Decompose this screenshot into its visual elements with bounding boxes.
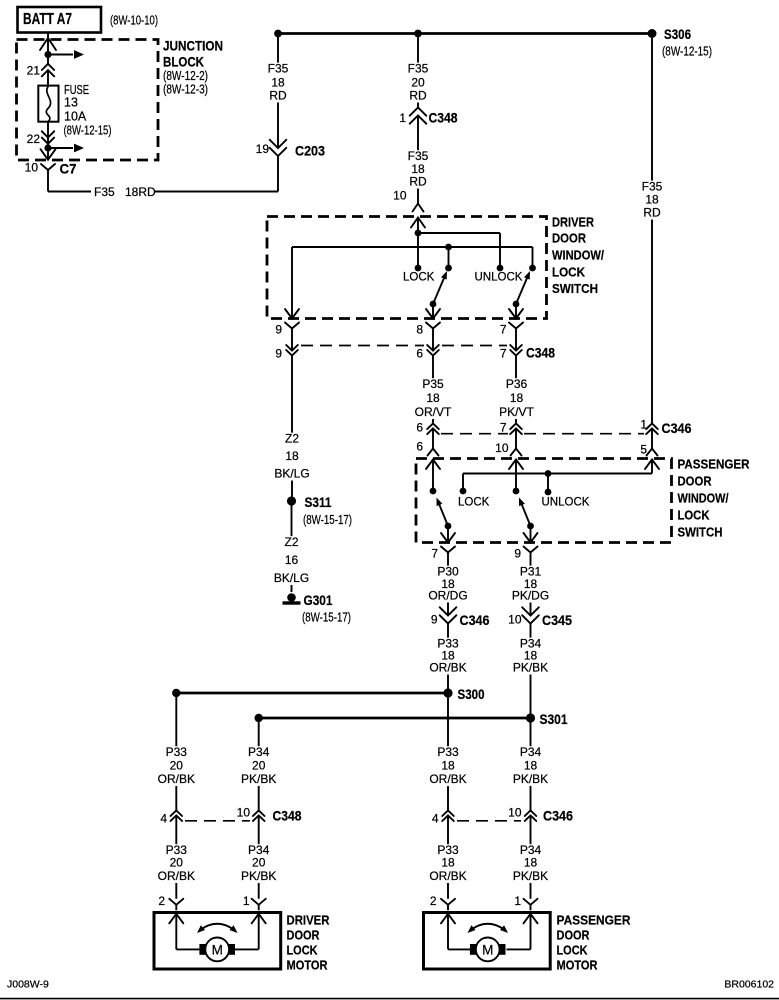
wire P34 20 PK/BK (driver leg from S301) <box>258 718 260 810</box>
node feed split (driver switch) <box>415 230 422 237</box>
svg-text:LOCK: LOCK <box>287 943 319 958</box>
lock contact (passenger) <box>460 488 467 495</box>
unlock stationary contact (driver) <box>497 265 504 272</box>
svg-text:Z2: Z2 <box>285 432 299 446</box>
svg-text:BLOCK: BLOCK <box>163 54 204 70</box>
svg-text:18: 18 <box>285 449 299 463</box>
unlock contact (passenger) <box>545 489 552 496</box>
splice S300 wire <box>176 692 448 695</box>
wire P33 18 OR/BK to S300 <box>447 624 449 694</box>
contact pin10 side (passenger) <box>513 488 520 495</box>
exit arrow pin 8 <box>426 309 440 319</box>
svg-text:22: 22 <box>27 132 41 146</box>
wire bus to C348 with label F35 20 RD <box>417 34 419 108</box>
wire BATT A7 to junction block <box>47 33 49 64</box>
svg-text:C348: C348 <box>526 345 555 361</box>
svg-text:BATT A7: BATT A7 <box>23 11 72 28</box>
svg-text:18: 18 <box>441 856 455 870</box>
svg-text:OR/VT: OR/VT <box>415 405 452 419</box>
switch blade pin 7 (driver) <box>513 301 520 308</box>
svg-text:2: 2 <box>430 894 437 908</box>
entry arrow driver motor pin 1 <box>252 914 266 924</box>
exit arrow pin 9 (passenger) <box>524 533 538 543</box>
svg-text:PASSENGER: PASSENGER <box>557 913 632 928</box>
svg-text:9: 9 <box>514 547 521 561</box>
wire pin21 to fuse <box>47 70 49 86</box>
footer line <box>0 998 779 1000</box>
svg-text:OR/DG: OR/DG <box>428 589 467 603</box>
svg-text:BR006102: BR006102 <box>724 979 774 991</box>
svg-text:18: 18 <box>510 391 524 405</box>
wire F35 18RD from C7 to C203 (down, right run) <box>47 176 49 192</box>
passenger switch pin 6 entry <box>432 430 434 449</box>
svg-text:21: 21 <box>27 64 41 78</box>
svg-text:1: 1 <box>243 894 250 908</box>
node BATT A7 feed box <box>18 7 102 33</box>
svg-text:F35: F35 <box>94 185 115 199</box>
splice S301 wire <box>259 717 531 720</box>
entry arrow pin 10 into driver switch <box>411 218 425 228</box>
svg-text:6: 6 <box>416 421 423 435</box>
svg-text:PK/BK: PK/BK <box>241 772 276 786</box>
entry arrow into junction block <box>40 38 56 50</box>
wire pin7 to C348 <box>515 334 517 351</box>
svg-text:UNLOCK: UNLOCK <box>475 272 523 284</box>
wire P34 18 PK/BK to S301 <box>530 624 532 719</box>
svg-text:P33: P33 <box>166 745 188 759</box>
svg-text:DOOR: DOOR <box>287 928 321 943</box>
entry arrow passenger motor pin 1 <box>524 914 538 924</box>
svg-text:MOTOR: MOTOR <box>557 958 599 973</box>
svg-text:PK/DG: PK/DG <box>512 589 549 603</box>
svg-text:Z2: Z2 <box>284 535 298 549</box>
svg-text:(8W-12-3): (8W-12-3) <box>163 83 208 97</box>
svg-text:S300: S300 <box>458 687 485 702</box>
wire to lock contact <box>417 233 419 268</box>
svg-text:18: 18 <box>271 76 285 90</box>
entry arrow passenger motor pin 2 <box>441 914 455 924</box>
lock stationary contact (driver) <box>415 265 422 272</box>
svg-text:PK/BK: PK/BK <box>513 661 548 675</box>
svg-text:PASSENGER: PASSENGER <box>678 457 751 472</box>
contact (driver unlock side) <box>529 265 536 272</box>
entry arrow pin 6 into passenger switch <box>426 460 440 470</box>
splice S300 <box>443 688 452 697</box>
svg-text:(8W-12-2): (8W-12-2) <box>163 69 208 83</box>
svg-text:S301: S301 <box>540 712 568 727</box>
svg-text:OR/BK: OR/BK <box>429 869 466 883</box>
svg-text:20: 20 <box>170 856 184 870</box>
svg-text:OR/BK: OR/BK <box>429 661 466 675</box>
svg-text:P35: P35 <box>422 377 444 391</box>
svg-text:7: 7 <box>500 347 507 361</box>
svg-text:10: 10 <box>393 189 407 203</box>
svg-text:RD: RD <box>269 89 287 103</box>
svg-text:(8W-10-10): (8W-10-10) <box>110 14 158 28</box>
svg-text:P33: P33 <box>437 745 459 759</box>
svg-text:BK/LG: BK/LG <box>274 467 309 481</box>
junction node with feed arrow (bottom) <box>47 138 49 160</box>
node on feed row (passenger) <box>545 470 552 477</box>
node at x278 on bus <box>274 30 282 38</box>
svg-text:C7: C7 <box>60 161 77 177</box>
svg-text:P36: P36 <box>506 377 528 391</box>
svg-text:20: 20 <box>252 759 266 773</box>
switch blade pin 8 (driver) <box>430 301 437 308</box>
switch blade pin 7 (passenger) <box>445 523 452 530</box>
svg-text:9: 9 <box>431 613 438 627</box>
contact below node (driver lock side) <box>445 265 452 272</box>
node on ground feed row <box>445 244 452 251</box>
svg-text:DRIVER: DRIVER <box>552 215 595 230</box>
passenger door lock motor box <box>424 913 551 970</box>
fuse 13 10A <box>38 86 58 122</box>
wire P30 18 OR/DG <box>447 558 449 616</box>
svg-text:(8W-12-15): (8W-12-15) <box>662 45 712 59</box>
wire ground feed row (driver switch) <box>292 246 533 248</box>
svg-text:DOOR: DOOR <box>557 928 591 943</box>
svg-text:20: 20 <box>252 856 266 870</box>
svg-text:LOCK: LOCK <box>458 497 490 509</box>
wire Z2 16 BK/LG to G301 <box>291 505 293 592</box>
svg-text:C203: C203 <box>295 143 325 159</box>
svg-text:19: 19 <box>256 142 270 156</box>
svg-text:1: 1 <box>399 111 406 125</box>
svg-text:F35: F35 <box>642 180 663 194</box>
svg-text:S311: S311 <box>305 495 332 510</box>
wire pin1 to motor (passenger) <box>530 914 532 950</box>
svg-text:4: 4 <box>160 812 167 826</box>
svg-text:LOCK: LOCK <box>403 272 435 284</box>
connector C346 dashed line <box>441 433 508 435</box>
svg-text:8: 8 <box>416 323 423 337</box>
wire pin8 to C348 <box>432 334 434 351</box>
svg-text:MOTOR: MOTOR <box>287 958 329 973</box>
svg-text:10: 10 <box>25 161 39 175</box>
svg-text:F35: F35 <box>268 62 289 76</box>
node left end S301 branch <box>255 714 263 722</box>
splice S311 <box>287 496 296 505</box>
wire F35 18 RD from S306 to C346 <box>651 38 653 423</box>
svg-text:9: 9 <box>275 323 282 337</box>
wire to passenger motor pin 2 <box>447 816 449 899</box>
svg-text:7: 7 <box>500 323 507 337</box>
svg-text:1: 1 <box>514 894 521 908</box>
wire pin9 to C348 <box>291 334 293 351</box>
svg-text:PK/VT: PK/VT <box>499 405 534 419</box>
svg-text:20: 20 <box>170 759 184 773</box>
svg-text:LOCK: LOCK <box>557 943 589 958</box>
wire to unlock contact <box>418 232 500 234</box>
motor M (passenger) <box>470 944 476 955</box>
splice S306 <box>648 29 657 38</box>
contact pin6 side (passenger) <box>430 488 437 495</box>
node left end S300 branch <box>172 689 180 697</box>
svg-text:RD: RD <box>643 206 661 220</box>
svg-text:C345: C345 <box>542 612 572 628</box>
svg-text:7: 7 <box>431 547 438 561</box>
svg-text:J008W-9: J008W-9 <box>7 979 49 991</box>
svg-text:SWITCH: SWITCH <box>552 281 598 296</box>
svg-text:18: 18 <box>441 759 455 773</box>
wire feed row from pin 5 (passenger) <box>651 460 653 474</box>
rotation arrows (passenger motor) <box>470 924 506 931</box>
svg-text:6: 6 <box>416 440 423 454</box>
wire P34 18 PK/BK (passenger leg from S301) <box>530 718 532 810</box>
junction block dashed box <box>17 40 159 161</box>
ground G301 <box>287 593 296 602</box>
svg-text:LOCK: LOCK <box>552 265 586 280</box>
wire pin1 to motor (driver) <box>258 914 260 950</box>
passenger door window/lock switch dashed box <box>416 459 672 543</box>
svg-text:F35: F35 <box>408 62 429 76</box>
svg-text:F35: F35 <box>408 149 429 163</box>
svg-text:2: 2 <box>158 894 165 908</box>
svg-text:OR/BK: OR/BK <box>158 869 195 883</box>
exit arrow from junction block <box>41 149 56 160</box>
svg-text:M: M <box>212 942 223 957</box>
wire Z2 18 BK/LG to S311 <box>291 356 293 497</box>
svg-text:18: 18 <box>524 856 538 870</box>
connector C348 dashed line <box>301 345 424 347</box>
connector C348 dashed line (driver motor) <box>185 820 250 822</box>
wire C348 to driver switch with label F35 18 RD <box>417 116 419 204</box>
svg-text:JUNCTION: JUNCTION <box>163 38 223 54</box>
wire P33 20 OR/BK (driver leg from S300) <box>175 693 177 810</box>
svg-text:SWITCH: SWITCH <box>678 525 723 540</box>
wire right end of feed row <box>532 247 534 268</box>
svg-text:(8W-12-15): (8W-12-15) <box>64 124 112 138</box>
switch blade pin 9 (passenger) <box>527 523 534 530</box>
svg-text:4: 4 <box>432 812 439 826</box>
svg-text:LOCK: LOCK <box>678 508 711 523</box>
node at x418 on bus <box>414 30 422 38</box>
wire to driver motor pin 2 <box>175 816 177 899</box>
exit arrow pin 7 (passenger) <box>441 533 455 543</box>
svg-text:16: 16 <box>285 553 299 567</box>
svg-text:DRIVER: DRIVER <box>287 913 331 928</box>
svg-text:PK/BK: PK/BK <box>241 869 276 883</box>
svg-text:S306: S306 <box>664 26 691 42</box>
driver door window/lock switch dashed box <box>267 217 547 319</box>
svg-text:10: 10 <box>237 806 251 820</box>
wire feed inside driver switch <box>417 218 419 234</box>
wire bus to C203 with label F35 18 RD <box>277 34 279 149</box>
svg-text:6: 6 <box>416 347 423 361</box>
svg-text:P34: P34 <box>520 745 542 759</box>
svg-text:WINDOW/: WINDOW/ <box>552 248 604 263</box>
svg-text:DOOR: DOOR <box>678 474 713 489</box>
svg-text:(8W-15-17): (8W-15-17) <box>303 513 352 527</box>
svg-text:OR/BK: OR/BK <box>158 772 195 786</box>
svg-text:18RD: 18RD <box>125 185 156 199</box>
wire fuse to pin 22 <box>47 122 49 138</box>
entry arrow driver motor pin 2 <box>169 914 183 924</box>
svg-text:C346: C346 <box>543 808 573 824</box>
wire P35 18 OR/VT <box>432 356 434 423</box>
splice S301 <box>526 713 535 722</box>
wire P31 18 PK/DG <box>530 558 532 616</box>
svg-text:C348: C348 <box>273 808 302 824</box>
svg-text:9: 9 <box>275 347 282 361</box>
exit arrow pin 7 <box>509 309 523 319</box>
svg-text:C348: C348 <box>429 110 458 126</box>
junction node with feed arrow (top) <box>44 51 51 58</box>
svg-text:10: 10 <box>495 441 509 455</box>
svg-text:20: 20 <box>411 76 425 90</box>
svg-text:C346: C346 <box>662 420 692 436</box>
svg-text:C346: C346 <box>460 612 490 628</box>
wire P36 18 PK/VT <box>515 356 517 423</box>
motor M (driver) <box>199 944 205 955</box>
svg-text:(8W-15-17): (8W-15-17) <box>302 611 351 625</box>
wire pin2 to motor (driver) <box>175 914 177 950</box>
svg-text:P34: P34 <box>248 745 270 759</box>
svg-text:13: 13 <box>64 96 78 110</box>
passenger switch pin 5 entry <box>651 430 653 449</box>
wire pin6 to contact (passenger) <box>432 460 434 492</box>
svg-text:10: 10 <box>508 613 522 627</box>
svg-text:WINDOW/: WINDOW/ <box>678 491 729 506</box>
entry arrow pin 5 into passenger switch <box>645 460 659 470</box>
exit arrow pin 9 <box>285 309 299 319</box>
entry arrow pin 10 into passenger switch <box>509 460 523 470</box>
svg-text:UNLOCK: UNLOCK <box>542 497 590 509</box>
svg-text:PK/BK: PK/BK <box>513 869 548 883</box>
svg-text:M: M <box>482 942 493 957</box>
svg-text:DOOR: DOOR <box>552 231 587 246</box>
rotation arrows (driver motor) <box>200 924 236 931</box>
passenger switch pin 10 entry <box>515 430 517 449</box>
svg-text:10A: 10A <box>64 110 87 124</box>
svg-text:18: 18 <box>645 193 659 207</box>
svg-text:10: 10 <box>508 806 522 820</box>
svg-text:PK/BK: PK/BK <box>513 772 548 786</box>
wire P33 18 OR/BK (passenger leg from S300) <box>447 693 449 810</box>
wire pin10 to contact (passenger) <box>515 460 517 492</box>
svg-text:18: 18 <box>426 391 440 405</box>
svg-text:G301: G301 <box>304 593 333 608</box>
svg-text:OR/BK: OR/BK <box>429 772 466 786</box>
wire feed to lock contact (passenger) <box>462 474 464 492</box>
svg-text:7: 7 <box>500 421 507 435</box>
wire to passenger motor pin 1 <box>530 816 532 899</box>
driver door lock motor box <box>154 913 281 970</box>
svg-text:BK/LG: BK/LG <box>274 571 309 585</box>
svg-text:18: 18 <box>524 759 538 773</box>
wire to driver motor pin 1 <box>258 816 260 899</box>
svg-text:RD: RD <box>409 89 427 103</box>
connector C346 dashed line (passenger motor) <box>457 820 521 822</box>
wire top bus F35 RD <box>278 32 652 35</box>
svg-text:RD: RD <box>409 175 427 189</box>
wire pin2 to motor (passenger) <box>447 914 449 950</box>
